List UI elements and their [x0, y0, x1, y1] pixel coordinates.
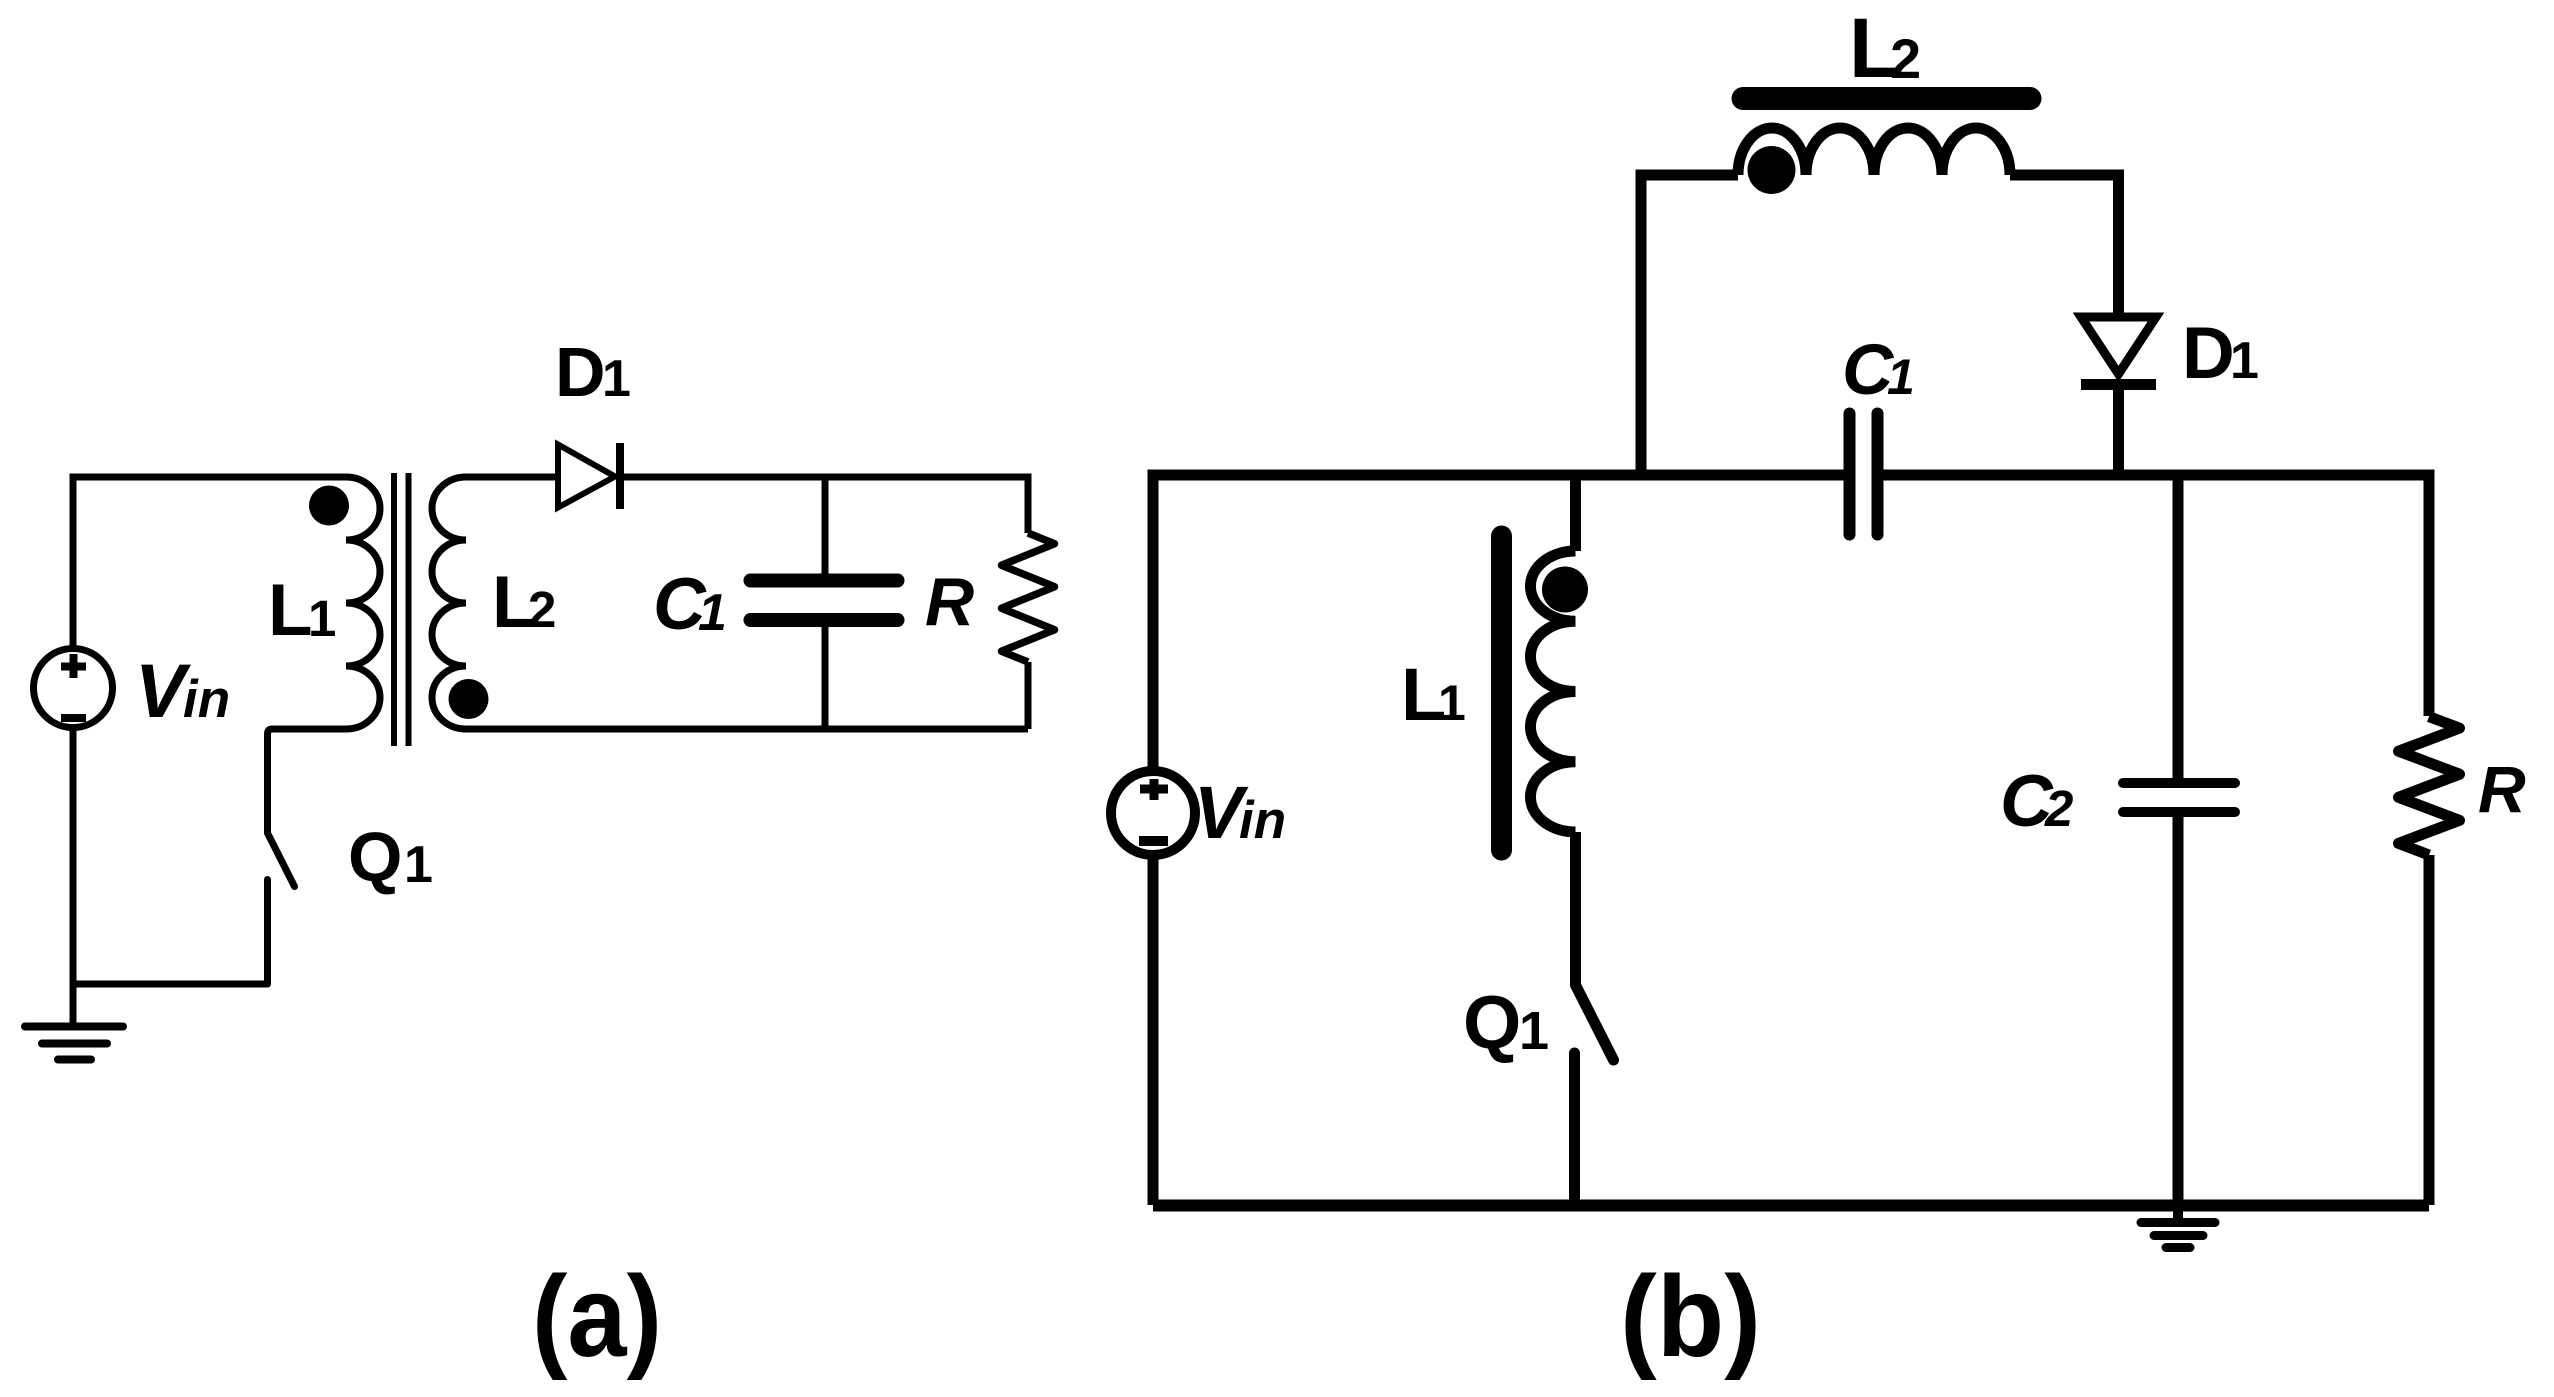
svg-text:2: 2 [528, 581, 556, 638]
label L2 (a) [492, 562, 556, 643]
wire: L2 branch left (b) [1641, 175, 1738, 475]
wire: diode to output corner (a) [620, 477, 1028, 533]
svg-text:1: 1 [308, 590, 336, 647]
svg-text:Q: Q [348, 818, 402, 896]
wire: source to bottom bus (b) [1148, 855, 1159, 1205]
wire: C1 branch bottom (a) [822, 625, 829, 729]
wire: output bottom (a) [466, 726, 1028, 733]
wire: C1 branch top (a) [822, 477, 829, 576]
wire: L2 to diode (b) [2010, 175, 2119, 317]
label D1 (a) [555, 333, 631, 411]
resistor R (a) [1002, 533, 1055, 662]
label Vin (a) [135, 649, 230, 734]
wire: L1 branch (b) [1570, 475, 1581, 551]
wire: secondary top to diode (a) [466, 474, 558, 481]
wire: bottom return to switch (a) [73, 981, 268, 988]
svg-text:1: 1 [1519, 1001, 1549, 1061]
wire: source to ground (a) [70, 727, 77, 984]
wire: right edge lower (b) [2424, 855, 2435, 1205]
wire: input loop top (a) [73, 477, 346, 649]
polarity dot L2 (b) [1748, 146, 1796, 194]
voltage source Vin (b) [1111, 771, 1195, 855]
capacitor C1 (b) [1850, 414, 1878, 535]
polarity dot L1 (b) [1542, 567, 1588, 613]
svg-text:2: 2 [1890, 27, 1921, 90]
label L2 (b) [1849, 1, 1921, 95]
svg-text:1: 1 [698, 584, 727, 642]
label R (a) [925, 564, 974, 640]
switch Q1 (b) [1575, 985, 1614, 1205]
capacitor C2 (b) [2123, 783, 2235, 812]
label C1 (a) [653, 564, 727, 645]
transformer primary winding L1 (a) [346, 477, 380, 729]
svg-text:1: 1 [602, 350, 631, 408]
wire: bottom bus (b) [1153, 1200, 2429, 1212]
diode D1 (b) [2081, 317, 2156, 385]
label (a) [532, 1253, 662, 1381]
svg-text:D: D [2182, 313, 2235, 394]
label Q1 (a) [348, 818, 433, 896]
inductor L2 winding (b) [1738, 128, 2010, 175]
label D1 (b) [2182, 313, 2259, 394]
label R (b) [2478, 752, 2526, 826]
label C2 (b) [2000, 761, 2073, 842]
svg-text:(a): (a) [532, 1253, 662, 1381]
label C1 (b) [1842, 331, 1915, 410]
transformer secondary winding L2 (a) [432, 477, 466, 729]
svg-text:in: in [1239, 791, 1286, 850]
wire: top bus right of C1 and right edge upper (b) [1878, 475, 2430, 716]
switch Q1 (a) [268, 833, 295, 984]
wire: diode to top bus (b) [2113, 385, 2124, 476]
inductor L1 winding (b) [1530, 551, 1575, 832]
wire: C2 to bottom bus (b) [2173, 816, 2184, 1205]
transformer polarity dot secondary (a) [449, 679, 489, 719]
label L1 (b) [1401, 653, 1466, 736]
inductor L2 core bar (b) [1743, 87, 2030, 110]
wire: resistor bottom lead (a) [1025, 662, 1032, 729]
ground (b) [2141, 1205, 2215, 1248]
inductor L1 core bar (b) [1491, 536, 1512, 850]
svg-text:(b): (b) [1620, 1253, 1761, 1381]
svg-text:2: 2 [2044, 780, 2073, 837]
svg-text:Q: Q [1463, 980, 1521, 1064]
svg-text:D: D [555, 333, 606, 411]
label Q1 (b) [1463, 980, 1549, 1064]
wire: primary bottom to switch (a) [268, 729, 347, 833]
svg-text:R: R [925, 564, 974, 640]
transformer core (a) [394, 473, 409, 746]
transformer polarity dot primary (a) [309, 486, 349, 526]
label (b) [1620, 1253, 1761, 1381]
ground (a) [25, 984, 123, 1060]
wire: top bus left of C1 (b) [1153, 475, 1850, 772]
resistor R (b) [2399, 717, 2460, 855]
wire: winding to switch (b) [1570, 832, 1581, 985]
svg-text:in: in [183, 670, 230, 729]
svg-text:1: 1 [1438, 675, 1466, 731]
voltage source Vin (a) [34, 649, 113, 728]
svg-text:1: 1 [404, 836, 433, 894]
diode D1 (a) [558, 443, 620, 509]
svg-text:1: 1 [1887, 349, 1915, 405]
label Vin (b) [1194, 771, 1286, 854]
svg-text:L: L [268, 570, 313, 651]
svg-text:1: 1 [2230, 332, 2259, 390]
label L1 (a) [268, 570, 336, 651]
wire: C2 branch top (b) [2173, 475, 2184, 779]
capacitor C1 (a) [751, 581, 898, 621]
svg-text:R: R [2478, 752, 2526, 826]
